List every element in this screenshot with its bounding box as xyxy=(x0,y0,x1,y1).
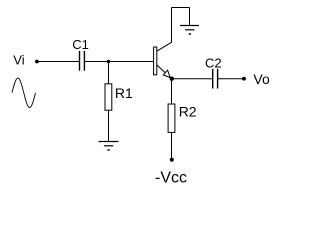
ground (top right) xyxy=(180,26,199,35)
node Vo output terminal xyxy=(242,77,246,81)
resistor R1 xyxy=(105,84,112,110)
wire node B down to R2 xyxy=(171,79,173,104)
svg-text:Vi: Vi xyxy=(13,52,24,67)
wire collector to top ground xyxy=(172,8,190,43)
svg-text:R1: R1 xyxy=(115,85,133,101)
source sine symbol xyxy=(12,78,36,108)
node Vi input terminal xyxy=(35,60,39,64)
ground (below R1) xyxy=(99,142,119,151)
svg-text:Vo: Vo xyxy=(253,71,270,87)
svg-text:-Vcc: -Vcc xyxy=(155,169,187,186)
capacitor C2 xyxy=(213,69,218,89)
node B emitter junction xyxy=(170,77,174,81)
resistor R2 xyxy=(168,104,175,132)
wire C1 to base xyxy=(84,61,153,63)
capacitor C1 xyxy=(80,51,85,71)
wire node B to C2 xyxy=(172,78,213,80)
wire R1 to ground xyxy=(108,110,110,141)
wire node A down to R1 xyxy=(108,62,110,84)
svg-text:C2: C2 xyxy=(205,56,222,71)
node -Vcc terminal xyxy=(170,158,174,162)
node A junction xyxy=(107,60,111,64)
wire C2 to Vo xyxy=(218,78,244,80)
wire Vi to C1 xyxy=(37,61,80,63)
wire R2 to -Vcc terminal xyxy=(171,132,173,158)
transistor Q1 xyxy=(154,42,172,79)
svg-text:C1: C1 xyxy=(72,37,89,52)
svg-text:R2: R2 xyxy=(179,103,197,119)
